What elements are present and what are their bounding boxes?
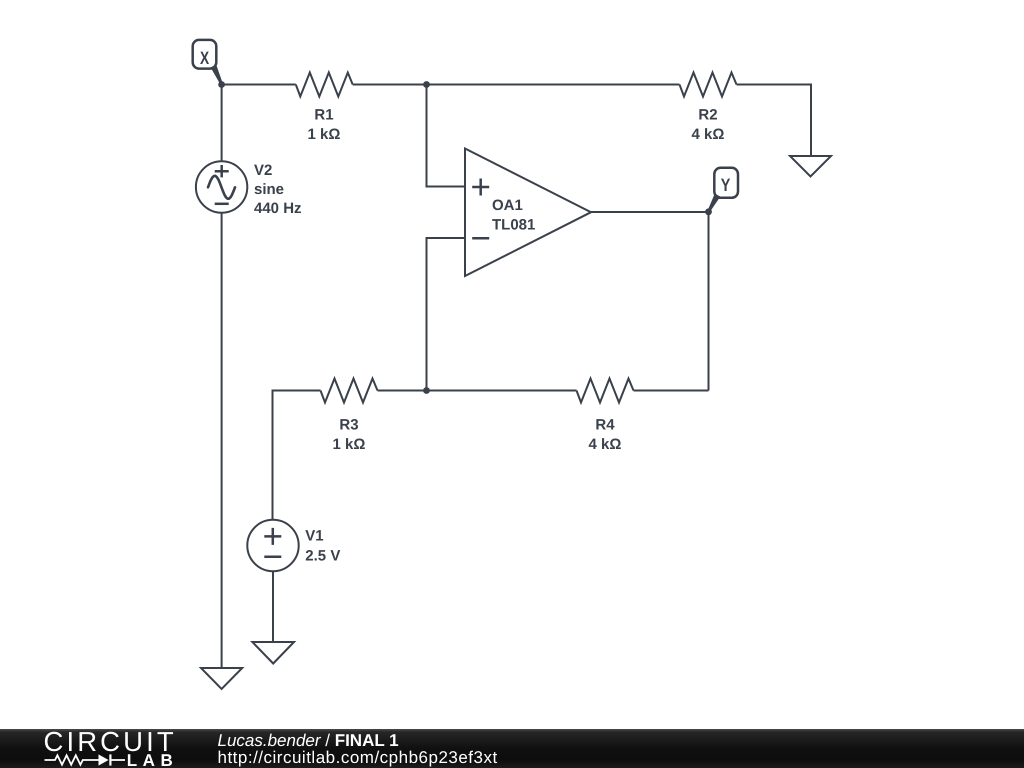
svg-text:Y: Y (721, 175, 731, 195)
svg-text:4 kΩ: 4 kΩ (589, 436, 622, 453)
svg-text:V2: V2 (254, 162, 272, 179)
svg-text:http://circuitlab.com/cphb6p23: http://circuitlab.com/cphb6p23ef3xt (218, 748, 498, 767)
svg-text:R1: R1 (314, 106, 333, 123)
svg-text:OA1: OA1 (492, 197, 523, 214)
svg-text:X: X (200, 48, 209, 68)
svg-text:sine: sine (254, 181, 284, 198)
svg-text:TL081: TL081 (492, 216, 535, 233)
svg-text:440 Hz: 440 Hz (254, 200, 302, 217)
svg-text:R4: R4 (595, 417, 615, 434)
svg-text:1 kΩ: 1 kΩ (333, 436, 366, 453)
svg-text:Lucas.bender / FINAL 1: Lucas.bender / FINAL 1 (218, 731, 399, 750)
svg-text:4 kΩ: 4 kΩ (692, 126, 725, 143)
svg-text:LAB: LAB (127, 751, 178, 768)
svg-text:V1: V1 (305, 527, 323, 544)
svg-text:R3: R3 (339, 417, 358, 434)
svg-text:2.5 V: 2.5 V (305, 547, 340, 564)
svg-text:R2: R2 (698, 106, 717, 123)
svg-text:1 kΩ: 1 kΩ (308, 126, 341, 143)
